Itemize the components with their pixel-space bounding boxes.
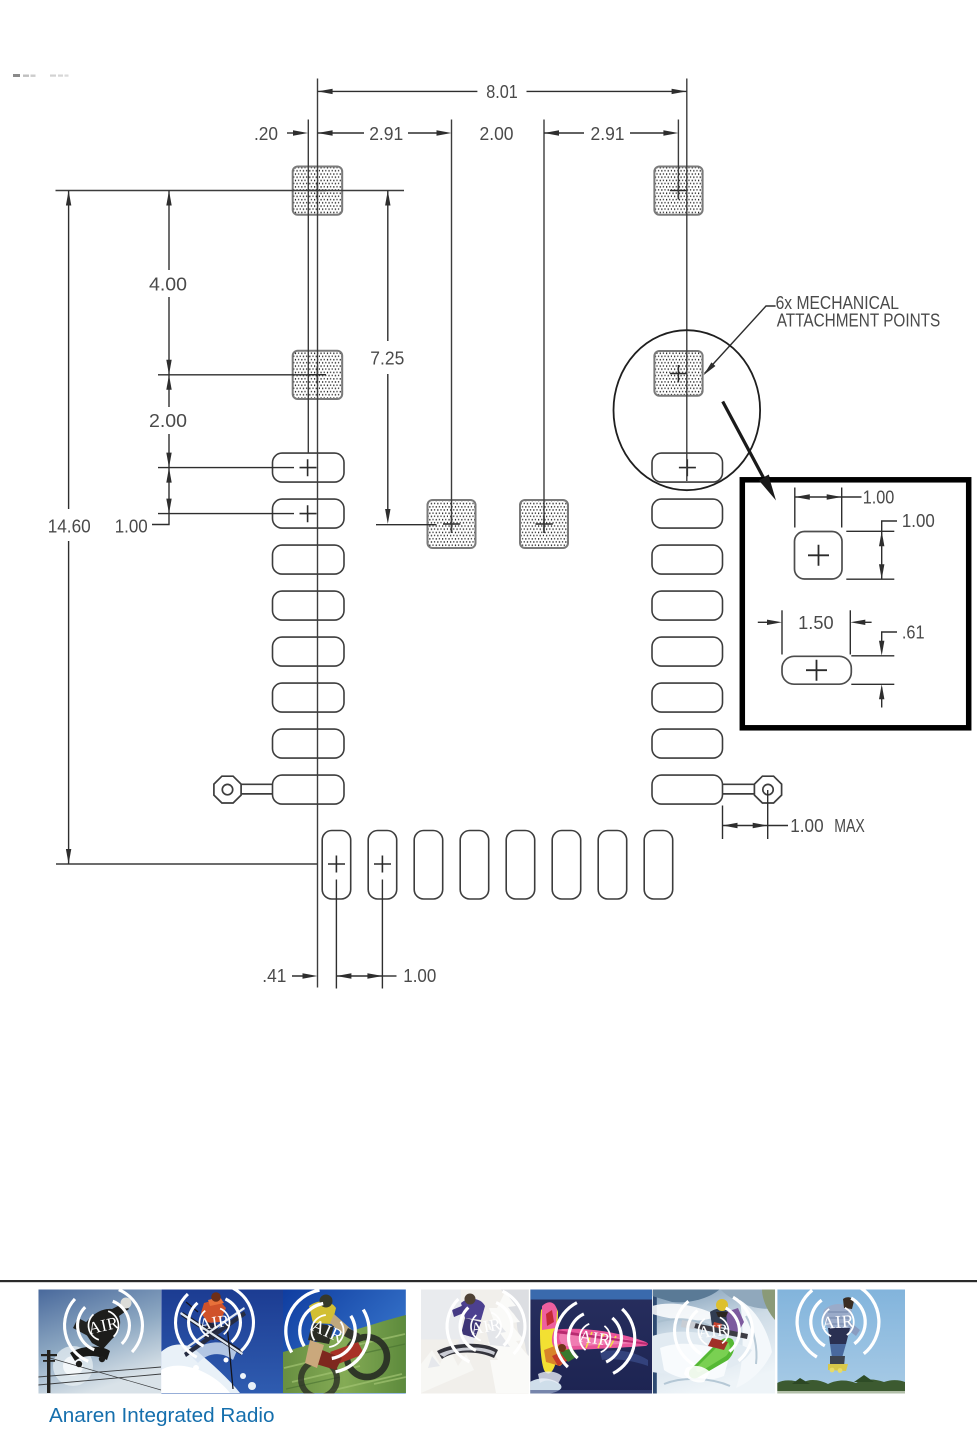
pad H6 mechanical attachment mid-right xyxy=(654,351,702,396)
node cross detail square pad xyxy=(808,545,829,566)
photo 5 windsurfer xyxy=(530,1290,652,1395)
wire detail pointer arrow xyxy=(723,402,766,482)
svg-text:1.00: 1.00 xyxy=(115,516,148,536)
node cross detail oblong pad xyxy=(806,660,827,681)
pad detail square 1.00x1.00 xyxy=(795,532,843,580)
svg-text:2.91: 2.91 xyxy=(591,124,625,144)
dimension 1.50 (detail) xyxy=(758,610,872,654)
wire top datum horizontal line xyxy=(56,190,405,192)
wire left pad-row axis line xyxy=(307,120,309,454)
node crosses on bottom pads B1 B2 xyxy=(328,856,391,873)
wire extension line to pad row 1 xyxy=(158,467,294,469)
pad H2 mechanical attachment mid-left xyxy=(293,351,343,399)
pad H3 mechanical attachment mid-center-left xyxy=(428,500,476,548)
svg-text:.61: .61 xyxy=(902,623,925,643)
pad right column R1..R8 xyxy=(652,453,723,804)
svg-text:14.60: 14.60 xyxy=(48,516,91,536)
photo 2 skier xyxy=(161,1285,283,1393)
svg-text:Anaren Integrated Radio: Anaren Integrated Radio xyxy=(49,1404,275,1427)
wire extension line to pad row 2 xyxy=(158,513,294,515)
dimension 14.60 xyxy=(68,191,70,865)
dimension .61 (detail) xyxy=(851,632,897,708)
pad right keyhole circle xyxy=(723,776,782,803)
pad bottom row B1..B8 xyxy=(322,831,673,900)
wire detail pointer arrowhead inside box xyxy=(759,475,776,500)
dimension 1.00 width (detail) xyxy=(795,488,862,528)
dimension 2.91 left xyxy=(318,130,333,135)
svg-text:7.25: 7.25 xyxy=(370,349,404,369)
wire right hatch-pad extension line xyxy=(677,120,679,199)
pad detail oblong 1.50x0.61 xyxy=(782,656,851,684)
svg-text:1.00: 1.00 xyxy=(902,511,935,531)
wire extension line to mid pad cross xyxy=(376,524,437,526)
svg-text:1.50: 1.50 xyxy=(798,613,833,633)
pad left column L1..L8 xyxy=(273,453,345,804)
photo 7 rollerblader xyxy=(777,1286,905,1394)
svg-text:4.00: 4.00 xyxy=(149,275,187,295)
dimension 1.00 height (detail) xyxy=(846,521,897,579)
dimension 8.01 xyxy=(318,90,687,92)
wire left module centerline xyxy=(317,79,319,988)
photo 6 kayaker xyxy=(652,1289,775,1394)
svg-text:1.00: 1.00 xyxy=(403,966,436,986)
svg-text:.20: .20 xyxy=(254,124,278,144)
svg-text:2.00: 2.00 xyxy=(480,124,514,144)
svg-text:1.00: 1.00 xyxy=(790,816,823,836)
dimension 1.00 MAX xyxy=(723,790,789,839)
wire mid attachment extension line 1 xyxy=(451,120,453,533)
dimension 4.00 / 2.00 / 1.00 chained column xyxy=(152,191,169,525)
pad H1 mechanical attachment top-left xyxy=(293,167,343,215)
pad left keyhole circle xyxy=(214,776,273,803)
wire mid attachment extension line 2 xyxy=(543,120,545,533)
photo 3 mountain biker xyxy=(276,1283,406,1397)
svg-text:.41: .41 xyxy=(262,966,286,986)
faint header remnant dashes xyxy=(13,74,69,77)
dimension 7.25 xyxy=(387,191,389,520)
svg-text:1.00: 1.00 xyxy=(863,488,895,508)
node detail circle (6x mechanical attachment area) xyxy=(614,330,761,490)
wire leader to attachment pad xyxy=(705,306,776,374)
photo 4 snowboarder xyxy=(421,1288,530,1393)
pad H5 mechanical attachment top-right xyxy=(654,167,702,215)
svg-text:MAX: MAX xyxy=(834,816,865,836)
node crosses on hatched pads xyxy=(309,182,688,533)
wire right module centerline xyxy=(686,79,688,482)
pad H4 mechanical attachment mid-center-right xyxy=(520,500,568,548)
svg-text:ATTACHMENT POINTS: ATTACHMENT POINTS xyxy=(777,310,941,330)
node crosses on dimensioned round pads xyxy=(300,459,696,522)
footer rule line xyxy=(0,1280,977,1282)
svg-text:2.91: 2.91 xyxy=(369,124,403,144)
wire bottom datum horizontal line xyxy=(56,863,318,865)
dimension 1.00 bottom xyxy=(336,880,396,989)
svg-text:8.01: 8.01 xyxy=(486,82,518,102)
photo 1 skateboarder silhouette xyxy=(38,1286,161,1393)
detail view box frame xyxy=(742,480,968,728)
dimension 2.91 right xyxy=(544,130,559,135)
wire extension line to pad H2 xyxy=(158,374,325,376)
svg-text:2.00: 2.00 xyxy=(149,411,187,431)
